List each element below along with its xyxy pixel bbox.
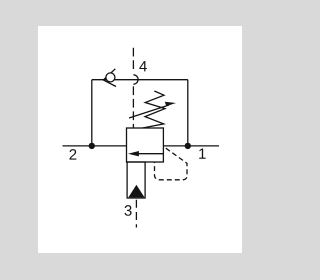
valve body box [127,128,164,162]
label 1 [199,148,205,158]
node junction dot right (port 1) [185,143,191,149]
tank tail rectangle [127,162,145,198]
spring [143,91,166,128]
label 3 [125,205,132,216]
flow arrow shaft inside box [137,153,163,155]
pilot line 4 dashed vertical lower [132,86,134,128]
pilot line 4 dashed vertical upper [132,48,134,72]
wire: top rail [92,79,188,81]
label 2 [70,149,77,159]
wire: main line right (valve box to port 1) [163,145,219,147]
white canvas [38,26,242,253]
tank triangle port 3 [128,185,144,198]
adjustment arrow shaft [129,105,169,118]
drain line 3 dashed [135,200,137,228]
node junction dot left (port 2) [89,143,95,149]
label 4 [139,61,147,71]
wire: right vertical riser [187,80,189,146]
wire: left vertical riser [91,80,93,146]
check valve CV1 ball [106,73,115,82]
check valve CV1 seat [103,69,116,87]
wire: main line left (port 2 to valve box) [63,145,127,147]
flow arrowhead inside box [128,151,139,156]
pilot sense dashed path from port 1 to spring chamber [155,147,188,180]
adjustment arrowhead [165,102,176,106]
line 4 hop over top rail [133,75,138,84]
